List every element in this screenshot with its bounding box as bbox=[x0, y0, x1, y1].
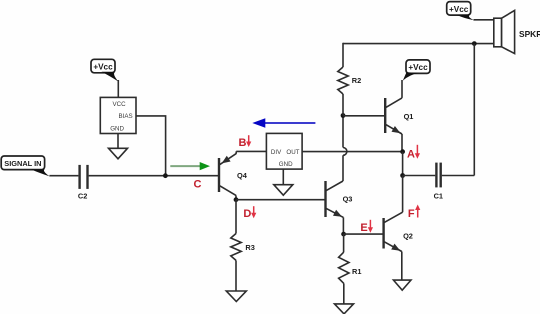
node F up-arrow bbox=[415, 205, 420, 218]
svg-text:OUT: OUT bbox=[286, 149, 299, 156]
svg-text:+Vcc: +Vcc bbox=[93, 63, 113, 72]
resistor R1 bbox=[339, 252, 349, 283]
wire R2 to top rail bbox=[342, 43, 344, 67]
node A down-arrow bbox=[415, 145, 420, 159]
wire node D to Q3 base bbox=[236, 199, 325, 201]
junction Q1 base node bbox=[341, 113, 346, 118]
svg-text:F: F bbox=[408, 208, 415, 220]
node B label bbox=[239, 137, 247, 149]
label C2 bbox=[78, 191, 87, 200]
pin label GND of U1 bbox=[279, 161, 293, 168]
wire node D to R3 bbox=[235, 200, 237, 234]
bias block U2 body bbox=[100, 97, 136, 133]
label Q3 bbox=[343, 195, 353, 204]
wire U2 GND pin to ground bbox=[117, 134, 119, 149]
transistor Q2 base bar bbox=[382, 218, 384, 249]
wire R3 to ground bbox=[235, 260, 237, 291]
label Q1 bbox=[404, 112, 414, 121]
wire hop (rail over OUT wire) bbox=[343, 148, 347, 156]
svg-text:R1: R1 bbox=[352, 267, 361, 276]
wire +Vcc to U2 VCC pin bbox=[117, 80, 119, 97]
svg-text:+Vcc: +Vcc bbox=[408, 63, 428, 72]
svg-text:E: E bbox=[360, 222, 367, 234]
junction node D (Q4 collector) bbox=[234, 197, 239, 202]
svg-text:D: D bbox=[243, 208, 251, 220]
transistor Q4 emitter lead bbox=[220, 151, 236, 164]
transistor Q3 collector lead bbox=[326, 155, 343, 190]
wire node A to C1 tap bbox=[402, 152, 404, 176]
ground (R1) bbox=[335, 304, 354, 314]
transistor Q3 base bar bbox=[324, 181, 326, 217]
svg-text:GND: GND bbox=[110, 125, 124, 132]
svg-text:C1: C1 bbox=[434, 192, 443, 201]
wire C1 left lead bbox=[403, 175, 436, 177]
label SPKR bbox=[519, 29, 540, 39]
svg-text:DIV: DIV bbox=[271, 149, 282, 156]
wire Q1 base node to R2 bbox=[342, 94, 344, 116]
junction bias/input node bbox=[163, 173, 168, 178]
resistor R3 bbox=[231, 234, 241, 261]
label R1 bbox=[352, 267, 361, 276]
svg-text:Q1: Q1 bbox=[404, 112, 414, 121]
power flag +Vcc (speaker) bbox=[447, 2, 474, 21]
input terminal SIGNAL IN bbox=[1, 156, 49, 176]
wire +Vcc to speaker top terminal bbox=[474, 19, 494, 21]
wire node E to R1 bbox=[343, 234, 345, 252]
node E down-arrow bbox=[368, 220, 373, 233]
wire node E to Q2 base bbox=[344, 233, 383, 235]
node D label bbox=[243, 208, 251, 220]
blue feedback arrow bbox=[252, 118, 315, 128]
svg-text:A: A bbox=[407, 148, 415, 160]
svg-text:VCC: VCC bbox=[113, 101, 127, 108]
transistor Q1 emitter lead bbox=[386, 125, 402, 152]
svg-text:Q2: Q2 bbox=[403, 232, 413, 241]
label R2 bbox=[352, 76, 361, 85]
wire C2 to Q4 base bbox=[89, 175, 218, 177]
wire U1 OUT pin to node A bbox=[302, 151, 403, 153]
wire BIAS output to input node bbox=[136, 116, 166, 176]
junction node A (output) bbox=[400, 149, 405, 154]
pin label DIV of U1 bbox=[271, 149, 282, 156]
transistor Q2 collector lead bbox=[384, 212, 402, 222]
pin label VCC of U2 bbox=[113, 101, 127, 108]
svg-text:SIGNAL IN: SIGNAL IN bbox=[4, 159, 41, 168]
wire SIGNAL IN to C2 bbox=[49, 175, 78, 177]
svg-text:R3: R3 bbox=[245, 243, 254, 252]
transistor Q4 base bar bbox=[218, 158, 220, 192]
power flag +Vcc (bias supply) bbox=[91, 59, 118, 81]
pin label BIAS of U2 bbox=[119, 113, 133, 120]
junction C1 tap node bbox=[400, 173, 405, 178]
transistor Q2 emitter lead bbox=[384, 242, 402, 280]
transistor Q3 emitter lead bbox=[326, 208, 343, 234]
svg-text:Q4: Q4 bbox=[237, 171, 248, 180]
wire rail to Q1 base bbox=[343, 115, 385, 117]
svg-text:Q3: Q3 bbox=[343, 195, 353, 204]
label C1 bbox=[434, 192, 443, 201]
pin label OUT of U1 bbox=[286, 149, 299, 156]
capacitor C1 bbox=[436, 163, 440, 188]
label Q2 bbox=[403, 232, 413, 241]
label R3 bbox=[245, 243, 254, 252]
wire R1 to ground bbox=[343, 283, 345, 304]
node B down-arrow bbox=[246, 135, 251, 147]
capacitor C2 bbox=[80, 165, 88, 189]
svg-text:BIAS: BIAS bbox=[119, 113, 133, 120]
svg-text:B: B bbox=[239, 137, 247, 149]
power flag +Vcc (Q1 collector) bbox=[403, 60, 430, 81]
node A label bbox=[407, 148, 415, 160]
svg-text:C: C bbox=[194, 178, 202, 190]
svg-text:R2: R2 bbox=[352, 76, 361, 85]
wire Q4 emitter to U1 DIV pin bbox=[236, 150, 266, 152]
wire C1 right lead to speaker node bbox=[442, 44, 475, 176]
ground (Q2 emitter) bbox=[393, 280, 411, 290]
wire rail Q3 collector to Q1 base node bbox=[342, 116, 344, 148]
svg-text:+Vcc: +Vcc bbox=[449, 5, 469, 14]
junction speaker/C1 node bbox=[472, 41, 477, 46]
pin label GND of U2 bbox=[110, 125, 124, 132]
divider block U1 body bbox=[266, 133, 302, 169]
transistor Q1 base bar bbox=[384, 98, 386, 133]
green signal-flow arrow bbox=[170, 162, 210, 170]
svg-text:SPKR: SPKR bbox=[519, 29, 540, 39]
transistor Q1 collector lead bbox=[386, 80, 402, 107]
node C label bbox=[194, 178, 202, 190]
resistor R2 bbox=[338, 67, 348, 94]
ground (U1) bbox=[274, 185, 293, 196]
wire U1 GND pin to ground bbox=[282, 169, 284, 185]
label Q4 bbox=[237, 171, 248, 180]
transistor Q4 collector lead bbox=[220, 186, 236, 200]
speaker SPKR body bbox=[494, 10, 515, 53]
ground (R3) bbox=[226, 291, 246, 302]
junction node E (Q3 emitter) bbox=[341, 232, 346, 237]
svg-text:C2: C2 bbox=[78, 191, 87, 200]
wire top rail bbox=[343, 43, 494, 45]
node F label bbox=[408, 208, 415, 220]
wire C1 tap to Q2 collector bbox=[402, 176, 404, 213]
ground (U2) bbox=[109, 148, 128, 159]
node E label bbox=[360, 222, 367, 234]
svg-text:GND: GND bbox=[279, 161, 293, 168]
node D down-arrow bbox=[251, 206, 256, 218]
